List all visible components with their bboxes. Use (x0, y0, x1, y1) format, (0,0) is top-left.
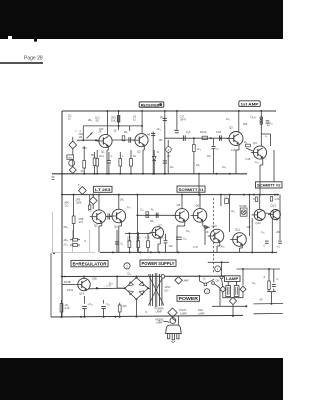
node railC h (251, 251, 253, 253)
svg-text:1R₁2.2K: 1R₁2.2K (65, 304, 70, 310)
wire right col (273, 150, 275, 182)
wire right col drop (279, 195, 281, 240)
svg-text:R₂₀: R₂₀ (221, 246, 225, 249)
wire Q9 collector (199, 195, 201, 209)
svg-text:Q13: Q13 (271, 204, 277, 208)
node j7 (260, 110, 262, 112)
svg-text:R: R (253, 198, 255, 201)
resistor 2R9 (130, 150, 132, 159)
svg-text:1R91K: 1R91K (136, 237, 141, 243)
svg-text:1R₁: 1R₁ (196, 164, 200, 167)
node lf a (221, 261, 223, 263)
wire lamp feed right (237, 268, 280, 270)
label box RECEIVER (139, 102, 164, 107)
resistor 2R5 interstage (122, 136, 125, 141)
svg-text:Q9: Q9 (196, 204, 200, 208)
node railB j3 (98, 194, 100, 196)
capacitor d4 (165, 234, 167, 240)
svg-text:Q11: Q11 (235, 228, 241, 232)
wire drop L4 branch (260, 111, 262, 146)
wire drop to Q1 collector (106, 111, 108, 135)
svg-text:+C: +C (277, 246, 280, 249)
svg-text:SCHMITT #1: SCHMITT #1 (179, 187, 205, 192)
svg-text:Q6: Q6 (114, 225, 118, 229)
transistor Q3 2SB171 (229, 132, 243, 146)
resistor r2a (255, 197, 257, 202)
capacitor drop x168 (167, 140, 169, 147)
node j8 (141, 125, 143, 127)
svg-text:RECEIVER: RECEIVER (141, 103, 160, 107)
wire lamp drop b (242, 269, 244, 285)
node chain b (210, 137, 212, 139)
svg-text:2R₈: 2R₈ (64, 226, 68, 229)
node railB r1 (243, 194, 245, 196)
dashed section divider (213, 198, 215, 273)
node railB j10 (248, 194, 250, 196)
diamond power lamp (168, 308, 177, 317)
node gnd junction 0 (61, 316, 63, 318)
circled 1 right (215, 266, 221, 272)
svg-text:.05: .05 (113, 130, 117, 133)
node railC a (112, 251, 114, 253)
wire Q8 collector (181, 195, 183, 209)
circled 2 below switch (204, 289, 209, 294)
wire Q9 emitter (202, 220, 204, 226)
resistor R16 coupling (245, 144, 250, 147)
svg-text:2C: 2C (160, 115, 163, 119)
capacitor box C13 (225, 199, 229, 204)
svg-text:2C₉: 2C₉ (64, 244, 68, 247)
svg-text:Q12: Q12 (256, 221, 262, 225)
svg-text:T₂: T₂ (78, 183, 81, 187)
wire drop x117 low (116, 230, 118, 252)
wire power lamp link (172, 317, 174, 318)
svg-text:100: 100 (169, 245, 174, 248)
capacitor 2C8 (163, 117, 167, 119)
svg-text:Z: Z (264, 275, 266, 279)
wire bias stub (129, 126, 131, 131)
node rail A junction 9 (153, 173, 155, 175)
arrowhead B+ 1 (96, 287, 99, 290)
wire switch out (214, 284, 220, 288)
wire Q5 emitter (101, 221, 103, 226)
inductor 2L1 (119, 152, 121, 159)
wire faint vertical pencil line (52, 212, 54, 253)
label box POWER (177, 296, 200, 302)
node gnd junction 5 (119, 316, 121, 318)
diode D3 (204, 226, 210, 228)
wire Q6 emitter (121, 221, 123, 226)
node x137 mid (136, 214, 138, 216)
node railB j8 (220, 194, 222, 196)
capacitor electro C14 (84, 296, 86, 304)
label box SCHMITT #1 (177, 186, 205, 192)
svg-text:4B: 4B (147, 134, 150, 137)
wire Q5 collector (98, 195, 100, 210)
wire switch feed (199, 276, 201, 281)
wire right pair bottom (267, 291, 276, 293)
bridge rectifier D11-D14 (125, 278, 148, 300)
label box 1st AMP (239, 101, 260, 107)
resistor r2b (270, 197, 272, 202)
wire Q10 emitter (219, 241, 221, 246)
wire Q11 emitter (241, 244, 243, 248)
transistor Q7 (152, 227, 164, 239)
plug prong 1 (168, 334, 170, 339)
label box B+REGULATOR (71, 260, 108, 266)
wire drop right cap (164, 111, 166, 174)
svg-text:C18: C18 (216, 130, 221, 134)
wire rail D (B+ line) (62, 275, 223, 277)
wire plug link (177, 316, 179, 325)
svg-text:C19: C19 (246, 157, 251, 161)
wire right section bottom (198, 174, 200, 195)
wire Q12 drop (251, 218, 253, 252)
wire diamond stub (92, 195, 94, 197)
svg-text:R14A: R14A (200, 130, 207, 134)
svg-text:2L₃: 2L₃ (197, 148, 201, 151)
wire mic base link (77, 139, 99, 141)
svg-text:C₁₉: C₁₉ (255, 161, 259, 164)
svg-text:R₂₁: R₂₁ (232, 210, 236, 213)
svg-text:C₁₅: C₁₅ (107, 303, 111, 306)
node left stub dot (53, 252, 55, 254)
wire faint horizontal pencil line (53, 252, 95, 254)
diamond lamp jack A (175, 277, 182, 284)
node rail A junction 8 (152, 173, 154, 175)
resistor d1 (128, 233, 130, 240)
svg-text:1C₂: 1C₂ (186, 230, 190, 233)
svg-text:C: C (111, 154, 113, 158)
svg-text:2R2: 2R2 (82, 146, 87, 150)
transistor Q14 regulator (78, 278, 90, 290)
node railC c (139, 251, 141, 253)
svg-text:G: G (64, 276, 66, 279)
node chain a (193, 137, 195, 139)
svg-text:6V: 6V (260, 299, 263, 302)
node railD j3 (199, 275, 201, 277)
wire left border (61, 111, 63, 317)
svg-text:220: 220 (247, 226, 252, 229)
resistor 2R6a (94, 152, 96, 158)
node railD j1 (83, 276, 85, 278)
wire rail C (schmitt ground) (100, 251, 277, 253)
wire Q13 drop (271, 219, 273, 252)
svg-text:C₁₃: C₁₃ (109, 282, 113, 285)
component box TM1 (67, 155, 74, 159)
wire lamp feed upper (208, 261, 229, 263)
svg-text:220: 220 (123, 305, 128, 308)
node border b (61, 194, 63, 196)
transistor Q13 (270, 210, 280, 220)
diamond lamp right (240, 286, 246, 292)
transformer circle T1 (69, 160, 75, 166)
node gnd junction 4 (114, 316, 116, 318)
transistor Q5 (92, 210, 106, 224)
diode 2D1 (153, 150, 155, 157)
svg-text:1R7220: 1R7220 (127, 237, 132, 243)
svg-text:C₁₁: C₁₁ (183, 238, 187, 241)
resistor hh2 (73, 244, 78, 247)
wire Q7 emitter (159, 237, 161, 244)
svg-text:Rᴠᴏ: Rᴠᴏ (100, 154, 105, 158)
node railB j9 (229, 194, 231, 196)
svg-text:C₁₀: C₁₀ (127, 206, 131, 209)
top black margin bar (0, 0, 283, 39)
wire Q7 base (137, 232, 150, 234)
wire left corner drop (50, 253, 52, 317)
svg-text:4.7K: 4.7K (193, 246, 198, 249)
node rail A junction 2 (96, 173, 98, 175)
svg-text:△: △ (75, 129, 78, 132)
svg-text:2C₃: 2C₃ (81, 170, 85, 173)
svg-text:D: D (157, 150, 159, 154)
wire B+ arrow line (88, 287, 125, 290)
svg-text:10K: 10K (99, 128, 104, 131)
node bf2 (156, 214, 158, 216)
wire Q1 emitter to rail A (107, 146, 109, 150)
switch S1 lever (206, 279, 214, 283)
svg-text:2R: 2R (159, 139, 162, 142)
wire q12 q13 link (265, 212, 271, 215)
svg-text:R₁₆: R₁₆ (244, 142, 247, 144)
node rail A junction 1 (94, 173, 96, 175)
circled node 2 (166, 147, 172, 153)
svg-text:Q3: Q3 (229, 126, 233, 130)
svg-text:SCHMITT #2: SCHMITT #2 (257, 183, 281, 188)
wire output to edge B (254, 312, 284, 314)
svg-text:RUNNI: RUNNI (240, 206, 248, 208)
node rail A junction 4 (108, 173, 110, 175)
svg-text:Q2: Q2 (137, 150, 141, 154)
svg-text:ON: ON (216, 280, 220, 283)
wire Q2 emitter to rail A (143, 145, 145, 150)
svg-text:1: 1 (217, 267, 219, 271)
wire T2 stub (81, 193, 83, 195)
capacitor 2C9 (164, 152, 166, 161)
node railD end (222, 275, 224, 277)
capacitor right pair (273, 269, 275, 283)
wire faint v2 (89, 230, 91, 252)
svg-text:Q10: Q10 (212, 224, 218, 228)
node gnd junction 1 (80, 316, 82, 318)
svg-text:1R₅: 1R₅ (150, 220, 154, 223)
trimmer arrow 2VR1 (87, 133, 93, 139)
wire drop x137 (136, 195, 138, 253)
node lf b (242, 268, 244, 270)
svg-text:Cₗ: Cₗ (217, 148, 220, 151)
node railB j2 (73, 194, 75, 196)
wire drop R bias (118, 111, 120, 130)
node bf1 (146, 214, 148, 216)
svg-text:LT 263: LT 263 (95, 187, 111, 192)
svg-text:POWER SUPPLY: POWER SUPPLY (142, 261, 175, 266)
svg-text:1μ: 1μ (267, 123, 270, 127)
svg-text:2R₅: 2R₅ (124, 131, 128, 134)
svg-text:C₂: C₂ (250, 115, 253, 119)
node railB j12 (277, 194, 279, 196)
resistor 2R4 (117, 116, 120, 123)
svg-text:2R₃: 2R₃ (88, 119, 92, 122)
wire Q4 emitter drop (262, 157, 264, 165)
diamond jack mid (89, 197, 97, 205)
transistor Q10 (210, 229, 224, 243)
node railB r2 (253, 194, 255, 196)
resistor cap pair (119, 303, 121, 305)
capacitor C18b branch (213, 138, 215, 146)
svg-text:D₁₁: D₁₁ (128, 273, 132, 276)
svg-text:LAMP: LAMP (226, 276, 239, 281)
svg-text:2C₇: 2C₇ (170, 166, 174, 169)
svg-text:C₁A: C₁A (186, 131, 191, 134)
node railD j0 (61, 276, 63, 278)
lamp socket rect 2 (234, 286, 239, 297)
node railC f (177, 251, 179, 253)
node railC b (129, 251, 131, 253)
node rail A junction 10 (164, 173, 166, 175)
wire Q14 collector stub (83, 277, 85, 279)
wire Q6 collector (118, 195, 120, 210)
svg-text:Q1: Q1 (101, 150, 105, 154)
circled 1 left (124, 263, 130, 269)
wire lamp joins (222, 292, 224, 298)
resistor hh1 (73, 238, 78, 241)
wire Q8 emitter (184, 220, 186, 226)
svg-text:S: S (146, 311, 148, 314)
svg-text:LAMP: LAMP (156, 311, 163, 314)
wire L4 elbow (261, 133, 270, 135)
svg-text:2: 2 (168, 148, 170, 152)
svg-text:5K: 5K (91, 153, 94, 157)
node railB j4 (118, 194, 120, 196)
diamond jack T2 (79, 187, 87, 195)
capacitor C11 (176, 236, 182, 238)
capacitor c2a (265, 240, 269, 242)
node border a (61, 173, 63, 175)
tick marks under rail A (52, 176, 55, 178)
svg-text:C₁₆: C₁₆ (261, 231, 265, 234)
svg-text:R₁: R₁ (151, 209, 154, 212)
node gnd junction 2 (84, 316, 86, 318)
svg-text:LAMP: LAMP (198, 312, 205, 315)
svg-text:C₂₀: C₂₀ (270, 123, 274, 125)
power plug body (166, 325, 182, 334)
svg-text:.05: .05 (95, 119, 99, 123)
wire rail B (oscillator supply) (62, 194, 279, 196)
node j4 (164, 110, 166, 112)
node railC e (158, 251, 160, 253)
diamond jack 2J1 (69, 141, 77, 149)
svg-text:C: C (277, 278, 279, 281)
label box POWER SUPPLY (140, 260, 176, 266)
svg-text:C₁₀: C₁₀ (141, 209, 145, 212)
label box LAMP (225, 276, 241, 282)
wire mic feed (72, 137, 74, 142)
node border c (61, 276, 63, 278)
svg-text:C₉: C₉ (121, 243, 124, 246)
svg-text:1: 1 (126, 264, 128, 268)
capacitor on feed (155, 213, 157, 219)
node j3 (141, 110, 143, 112)
svg-text:L₅: L₅ (265, 135, 267, 138)
node railB j5 (136, 194, 138, 196)
inductor L4 (260, 117, 263, 120)
svg-text:2SB: 2SB (92, 278, 97, 281)
capacitor C low (115, 241, 119, 243)
svg-text:1N34: 1N34 (67, 289, 74, 292)
transistor Q1 2SB75 (99, 134, 112, 147)
wire top supply rail (62, 110, 276, 112)
svg-text:+C₁₄: +C₁₄ (88, 303, 93, 306)
inductor 2L3 branch (193, 138, 195, 144)
svg-text:Q14: Q14 (79, 292, 84, 296)
svg-text:2C₆: 2C₆ (157, 128, 161, 131)
transistor Q11 (233, 233, 247, 247)
wire interstage (112, 139, 135, 141)
node rail A junction 11 (164, 173, 166, 175)
svg-text:LAMP: LAMP (183, 280, 190, 283)
svg-text:L4: L4 (253, 116, 257, 120)
svg-text:1R₂: 1R₂ (207, 155, 211, 158)
svg-text:L: L (122, 154, 124, 158)
node railC g (271, 251, 273, 253)
terminal circle lamp (220, 276, 223, 279)
wire Q12 collector (259, 195, 261, 210)
svg-text:4.5: 4.5 (88, 210, 92, 213)
wire Q5-Q6 link (106, 216, 112, 218)
svg-text:1C₃: 1C₃ (222, 166, 226, 169)
svg-text:Q5: Q5 (94, 224, 98, 228)
wire bridge top to rail D (135, 277, 137, 278)
node rail right2 (229, 173, 231, 175)
svg-text:1K: 1K (206, 231, 209, 234)
wire base feed Q8 (137, 214, 175, 216)
capacitor c2b (278, 240, 282, 242)
diamond lamp bottom (229, 297, 236, 304)
wire lamp drop a (221, 262, 223, 275)
node rail A junction 6 (130, 173, 132, 175)
svg-text:2.2K: 2.2K (275, 198, 280, 201)
label box LT 263 (94, 186, 113, 192)
node railB r3 (274, 194, 276, 196)
svg-text:1K: 1K (161, 237, 164, 240)
svg-text:2R₉: 2R₉ (64, 239, 68, 242)
wire lamp to ground (232, 305, 234, 316)
svg-text:B+REGULATOR: B+REGULATOR (73, 261, 107, 266)
node railB j1 (92, 194, 94, 196)
svg-text:C: C (264, 245, 266, 248)
capacitor 2C3 (108, 152, 110, 161)
svg-text:R₂₅: R₂₅ (253, 282, 257, 285)
node rail A junction 0 (83, 173, 85, 175)
svg-text:POWER: POWER (179, 296, 199, 301)
svg-text:Q7: Q7 (158, 224, 162, 228)
svg-text:10K: 10K (111, 119, 116, 123)
wire bias feed line (83, 125, 142, 127)
diamond lamp left (220, 286, 226, 292)
wire low link (125, 232, 137, 234)
svg-text:①: ① (84, 239, 87, 243)
wire ground rail bottom (51, 315, 243, 317)
wire faint v1 (71, 230, 73, 252)
transistor Q8 (175, 209, 189, 223)
svg-text:C₁₃: C₁₃ (224, 196, 228, 199)
svg-text:10: 10 (68, 118, 71, 121)
svg-text:S₁: S₁ (203, 278, 206, 281)
resistor 2R2 (83, 146, 85, 161)
node x137 low (136, 232, 138, 234)
node chain c (220, 137, 222, 139)
